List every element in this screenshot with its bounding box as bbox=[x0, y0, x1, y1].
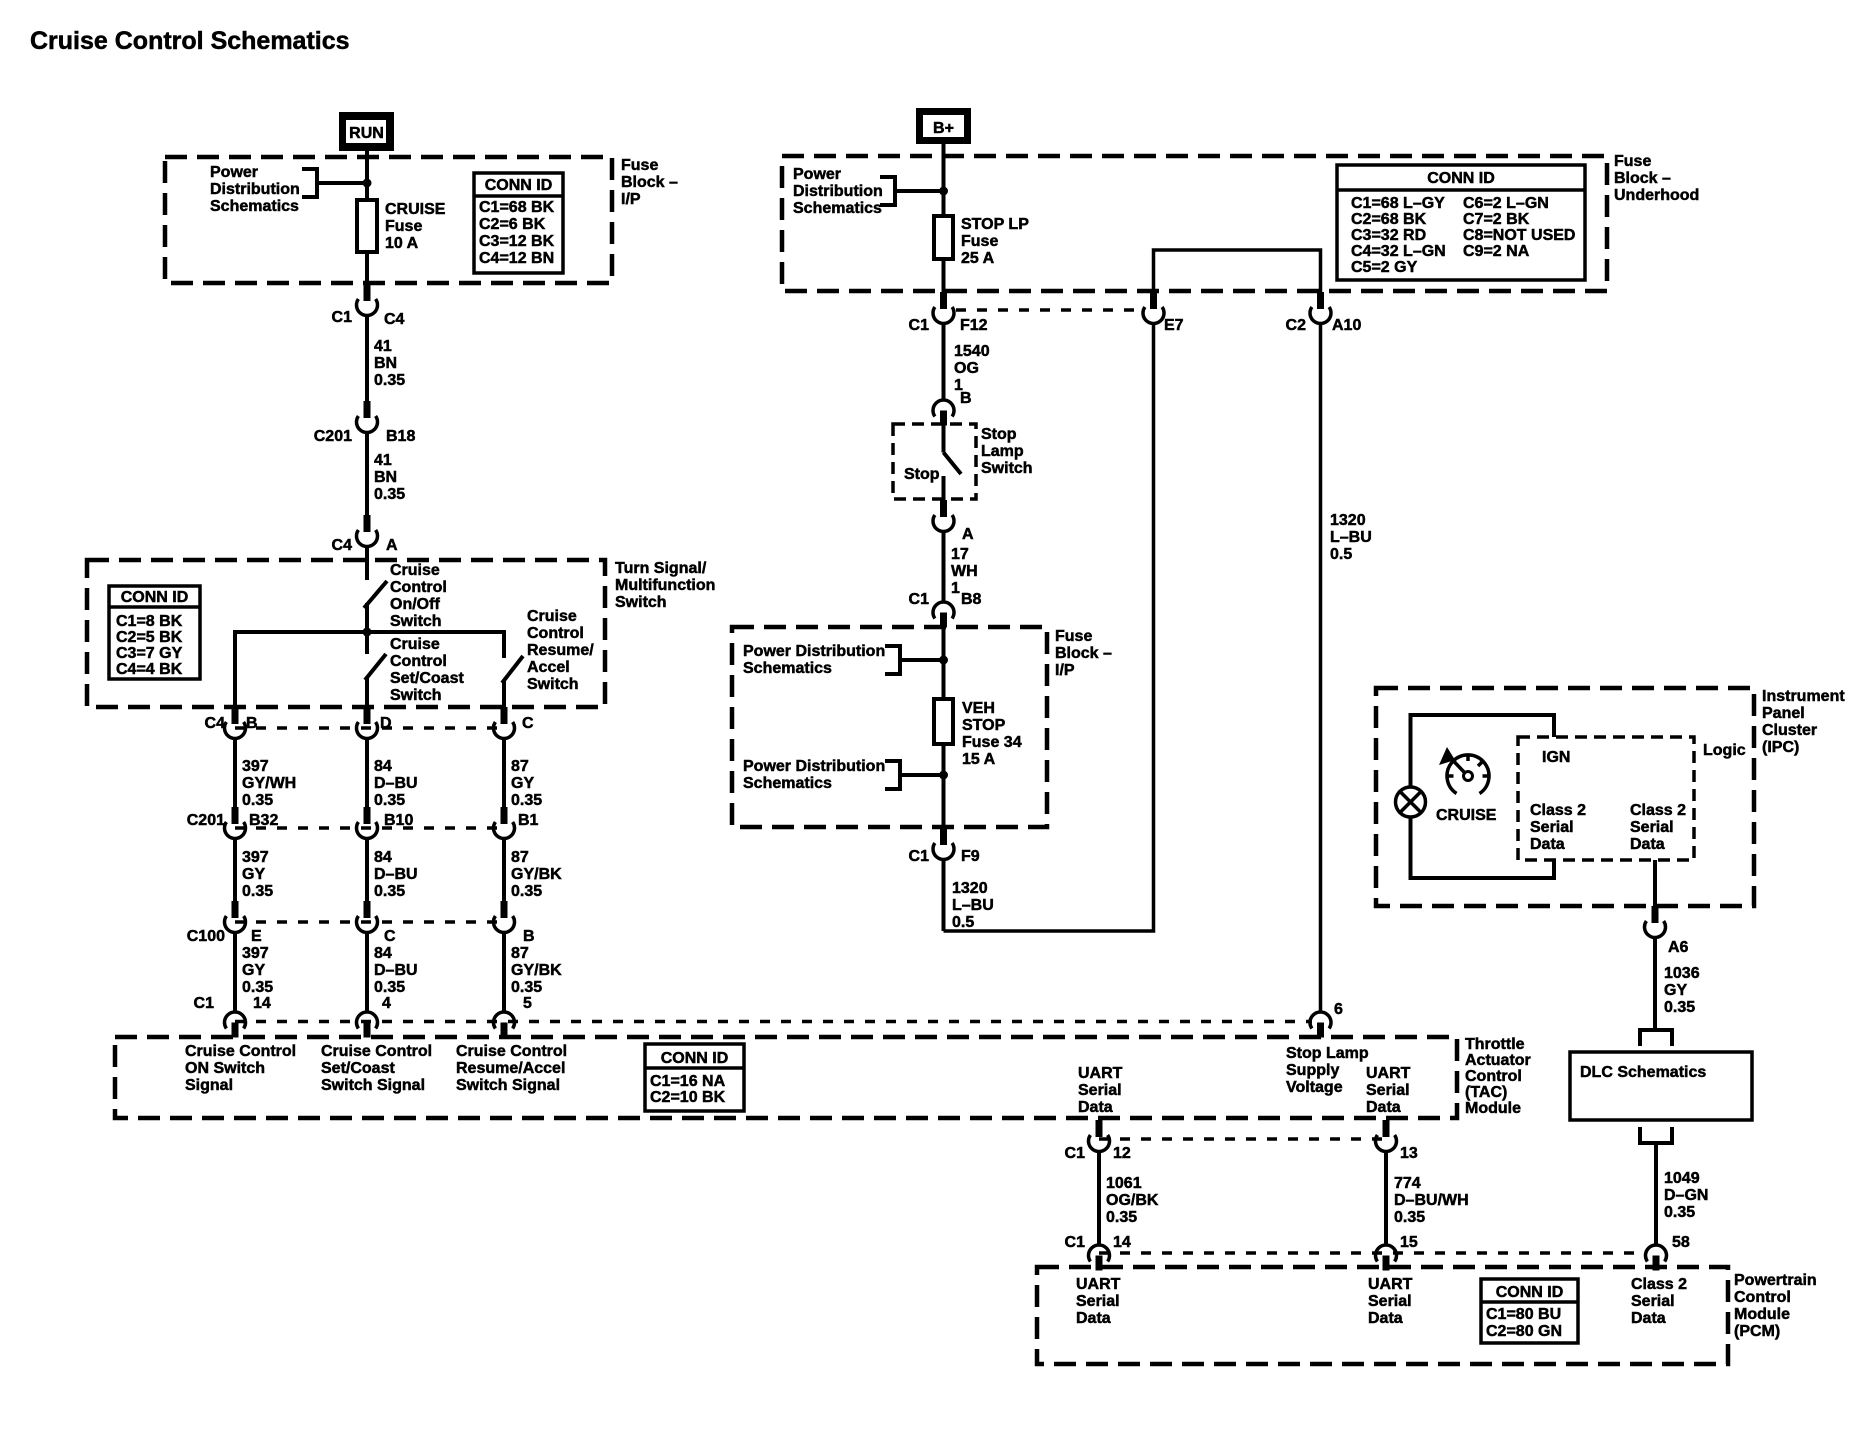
svg-text:(IPC): (IPC) bbox=[1762, 739, 1799, 756]
connector C1 pin F12 bbox=[909, 292, 988, 334]
svg-text:C2=68 BK: C2=68 BK bbox=[1351, 211, 1427, 228]
connector row C201 dotted line bbox=[235, 826, 504, 830]
cruise control on/off switch bbox=[364, 562, 447, 632]
connector pin 58 (PCM) bbox=[1646, 1234, 1690, 1271]
svg-text:Stop: Stop bbox=[981, 426, 1017, 443]
connector C4 pin B bbox=[205, 707, 258, 739]
svg-text:BN: BN bbox=[374, 355, 397, 372]
junction node switch bus bbox=[363, 628, 372, 637]
throttle actuator control TAC module dashed box bbox=[115, 1037, 1457, 1118]
svg-text:4: 4 bbox=[382, 995, 391, 1012]
svg-text:Multifunction: Multifunction bbox=[615, 577, 715, 594]
CONN ID table (fuse block I/P) bbox=[474, 173, 563, 273]
wire RUN to fuse block bbox=[365, 151, 369, 200]
wire class 2 serial data out of IPC bbox=[1653, 860, 1657, 906]
svg-text:C1: C1 bbox=[1065, 1145, 1086, 1162]
svg-text:87: 87 bbox=[511, 945, 529, 962]
svg-text:Serial: Serial bbox=[1366, 1082, 1410, 1099]
svg-text:Class 2: Class 2 bbox=[1631, 1276, 1687, 1293]
svg-text:D–BU: D–BU bbox=[374, 962, 418, 979]
svg-text:Switch: Switch bbox=[390, 613, 442, 630]
svg-text:0.35: 0.35 bbox=[511, 792, 542, 809]
connector C1 pin 14 (PCM) bbox=[1065, 1234, 1131, 1271]
svg-text:C1=68 BK: C1=68 BK bbox=[479, 199, 555, 216]
svg-text:Data: Data bbox=[1076, 1310, 1111, 1327]
svg-text:B: B bbox=[523, 928, 535, 945]
svg-text:C1=68 L–GY: C1=68 L–GY bbox=[1351, 195, 1445, 212]
svg-text:C4=12 BN: C4=12 BN bbox=[479, 250, 554, 267]
wire 397 GY 0.35 bbox=[235, 839, 273, 902]
svg-text:C1=8 BK: C1=8 BK bbox=[116, 613, 183, 630]
svg-text:Module: Module bbox=[1734, 1306, 1790, 1323]
svg-text:C100: C100 bbox=[187, 928, 225, 945]
svg-text:UART: UART bbox=[1366, 1065, 1411, 1082]
svg-text:Schematics: Schematics bbox=[743, 660, 832, 677]
svg-text:0.35: 0.35 bbox=[374, 792, 405, 809]
svg-text:Data: Data bbox=[1631, 1310, 1666, 1327]
svg-text:STOP LP: STOP LP bbox=[961, 216, 1029, 233]
svg-text:0.35: 0.35 bbox=[511, 979, 542, 996]
svg-text:F12: F12 bbox=[960, 317, 988, 334]
svg-text:C2=10 BK: C2=10 BK bbox=[650, 1089, 726, 1106]
svg-text:Fuse 34: Fuse 34 bbox=[962, 734, 1022, 751]
DLC connector bracket (top) bbox=[1640, 1030, 1672, 1046]
svg-text:Switch Signal: Switch Signal bbox=[456, 1077, 560, 1094]
wire reference to VEH STOP node (lower) bbox=[900, 773, 944, 777]
connector pin A6 bbox=[1645, 906, 1689, 956]
instrument panel cluster IPC dashed box bbox=[1376, 688, 1754, 906]
svg-text:5: 5 bbox=[523, 995, 532, 1012]
svg-text:IGN: IGN bbox=[1542, 749, 1570, 766]
svg-text:C1: C1 bbox=[1065, 1234, 1086, 1251]
svg-text:D: D bbox=[380, 715, 392, 732]
connector C1 F12 to E7 dotted line bbox=[956, 308, 1142, 312]
svg-text:0.35: 0.35 bbox=[1664, 1204, 1695, 1221]
svg-text:Cruise: Cruise bbox=[390, 636, 440, 653]
connector C4 pin D bbox=[357, 707, 392, 739]
svg-text:F9: F9 bbox=[961, 848, 980, 865]
svg-text:0.35: 0.35 bbox=[1664, 999, 1695, 1016]
svg-text:CONN ID: CONN ID bbox=[485, 177, 553, 194]
svg-text:C1: C1 bbox=[194, 995, 215, 1012]
svg-text:Block –: Block – bbox=[1055, 645, 1112, 662]
svg-text:Resume/: Resume/ bbox=[527, 642, 594, 659]
svg-text:L–BU: L–BU bbox=[1330, 529, 1372, 546]
svg-text:OG/BK: OG/BK bbox=[1106, 1192, 1159, 1209]
svg-text:Control: Control bbox=[1465, 1068, 1522, 1085]
svg-text:C4: C4 bbox=[205, 715, 226, 732]
svg-text:0.5: 0.5 bbox=[952, 914, 974, 931]
svg-text:0.35: 0.35 bbox=[374, 979, 405, 996]
svg-text:WH: WH bbox=[951, 563, 978, 580]
svg-text:OG: OG bbox=[954, 360, 979, 377]
svg-text:12: 12 bbox=[1113, 1145, 1131, 1162]
svg-text:Stop Lamp: Stop Lamp bbox=[1286, 1045, 1369, 1062]
svg-text:C2=6 BK: C2=6 BK bbox=[479, 216, 546, 233]
wire 774 D-BU/WH 0.35 bbox=[1386, 1152, 1469, 1246]
svg-text:C201: C201 bbox=[314, 428, 352, 445]
connector C201 pin B10 bbox=[357, 807, 414, 839]
connector C100 pin C bbox=[357, 901, 397, 945]
svg-text:Cruise: Cruise bbox=[527, 608, 577, 625]
svg-text:1320: 1320 bbox=[952, 880, 988, 897]
junction node VEH upper bbox=[939, 656, 948, 665]
wire STOP LP fuse to C1 F12 bbox=[942, 259, 946, 292]
svg-text:A: A bbox=[386, 537, 398, 554]
wire fuse block bridge E7 to A10 bbox=[1154, 250, 1321, 292]
wire 1036 GY 0.35 bbox=[1655, 938, 1700, 1031]
svg-text:Stop: Stop bbox=[904, 466, 940, 483]
svg-text:I/P: I/P bbox=[621, 191, 641, 208]
connector C1 pin 4 bbox=[357, 995, 392, 1038]
svg-text:0.35: 0.35 bbox=[242, 979, 273, 996]
svg-text:10 A: 10 A bbox=[385, 235, 419, 252]
wire 41 BN 0.35 (lower) bbox=[367, 433, 405, 516]
svg-text:Actuator: Actuator bbox=[1465, 1052, 1531, 1069]
svg-text:Voltage: Voltage bbox=[1286, 1079, 1343, 1096]
svg-text:Cruise Control Schematics: Cruise Control Schematics bbox=[30, 27, 350, 55]
svg-text:Class 2: Class 2 bbox=[1630, 802, 1686, 819]
wire B8 to VEH STOP fuse bbox=[942, 628, 946, 700]
svg-text:Powertrain: Powertrain bbox=[1734, 1272, 1817, 1289]
wire 1049 D-GN 0.35 bbox=[1656, 1143, 1708, 1245]
svg-text:Distribution: Distribution bbox=[793, 183, 883, 200]
svg-text:17: 17 bbox=[951, 546, 969, 563]
svg-text:Block –: Block – bbox=[621, 174, 678, 191]
svg-text:Underhood: Underhood bbox=[1614, 187, 1699, 204]
wire fuse to connector C1/C4 bbox=[365, 252, 369, 284]
connector pin 6 (TAC stop lamp supply) bbox=[1310, 1001, 1343, 1038]
wire 397 GY/WH 0.35 bbox=[235, 739, 296, 810]
svg-text:A: A bbox=[962, 526, 974, 543]
wire B+ to STOP LP fuse bbox=[942, 144, 946, 216]
svg-text:C3=7 GY: C3=7 GY bbox=[116, 645, 183, 662]
svg-text:41: 41 bbox=[374, 452, 392, 469]
power distribution schematics reference (B+) bbox=[793, 166, 895, 217]
svg-text:Fuse: Fuse bbox=[1055, 628, 1092, 645]
DLC connector bracket (bottom) bbox=[1640, 1127, 1672, 1143]
svg-text:Switch: Switch bbox=[390, 687, 442, 704]
svg-text:Power: Power bbox=[210, 164, 258, 181]
connector C201 pin B1 bbox=[494, 807, 539, 839]
svg-text:Data: Data bbox=[1078, 1099, 1113, 1116]
svg-text:L–BU: L–BU bbox=[952, 897, 994, 914]
svg-text:Power Distribution: Power Distribution bbox=[743, 758, 885, 775]
connector row C1 dotted line to TAC pin 6 bbox=[235, 1020, 1312, 1024]
svg-text:C8=NOT USED: C8=NOT USED bbox=[1463, 227, 1575, 244]
svg-text:B: B bbox=[246, 715, 258, 732]
svg-text:87: 87 bbox=[511, 849, 529, 866]
svg-text:15: 15 bbox=[1400, 1234, 1418, 1251]
svg-text:1036: 1036 bbox=[1664, 965, 1700, 982]
DLC Schematics box bbox=[1570, 1052, 1752, 1120]
svg-text:C2=80 GN: C2=80 GN bbox=[1486, 1323, 1562, 1340]
svg-text:397: 397 bbox=[242, 758, 269, 775]
svg-text:D–BU/WH: D–BU/WH bbox=[1394, 1192, 1469, 1209]
svg-text:Cluster: Cluster bbox=[1762, 722, 1817, 739]
connector C201/B18 bbox=[314, 401, 416, 445]
svg-text:Control: Control bbox=[390, 579, 447, 596]
wire 87 GY 0.35 bbox=[504, 739, 542, 810]
svg-text:0.35: 0.35 bbox=[1394, 1209, 1425, 1226]
svg-text:DLC Schematics: DLC Schematics bbox=[1580, 1064, 1706, 1081]
svg-text:Switch: Switch bbox=[981, 460, 1033, 477]
svg-text:Instrument: Instrument bbox=[1762, 688, 1845, 705]
fuse block I/P dashed box (VEH STOP) bbox=[732, 627, 1047, 827]
svg-text:Class 2: Class 2 bbox=[1530, 802, 1586, 819]
cruise control set/coast switch bbox=[365, 632, 464, 707]
svg-text:0.35: 0.35 bbox=[511, 883, 542, 900]
svg-text:(PCM): (PCM) bbox=[1734, 1323, 1780, 1340]
svg-text:D–GN: D–GN bbox=[1664, 1187, 1708, 1204]
svg-text:Fuse: Fuse bbox=[961, 233, 998, 250]
svg-text:Data: Data bbox=[1630, 836, 1665, 853]
svg-text:1049: 1049 bbox=[1664, 1170, 1700, 1187]
connector pin 15 (PCM) bbox=[1376, 1234, 1418, 1271]
svg-text:C2: C2 bbox=[1286, 317, 1307, 334]
fuse CRUISE 10 A bbox=[357, 200, 377, 252]
svg-text:C4=4 BK: C4=4 BK bbox=[116, 661, 183, 678]
svg-text:774: 774 bbox=[1394, 1175, 1421, 1192]
svg-text:STOP: STOP bbox=[962, 717, 1006, 734]
svg-text:Module: Module bbox=[1465, 1100, 1521, 1117]
svg-text:Schematics: Schematics bbox=[743, 775, 832, 792]
wire 84 D-BU 0.35 (lower) bbox=[367, 933, 418, 1013]
svg-text:GY/BK: GY/BK bbox=[511, 866, 562, 883]
svg-text:CONN ID: CONN ID bbox=[121, 589, 189, 606]
svg-text:Serial: Serial bbox=[1630, 819, 1674, 836]
fuse STOP LP 25 A bbox=[934, 216, 953, 259]
wire 87 GY/BK 0.35 (lower) bbox=[504, 933, 562, 1013]
connector C201 pin B32 bbox=[187, 807, 279, 839]
svg-text:Cruise Control: Cruise Control bbox=[185, 1043, 296, 1060]
svg-text:C7=2 BK: C7=2 BK bbox=[1463, 211, 1530, 228]
connector C1/C4 bbox=[332, 284, 405, 328]
CONN ID table (multifunction switch) bbox=[109, 586, 200, 679]
svg-text:Lamp: Lamp bbox=[981, 443, 1024, 460]
svg-text:GY: GY bbox=[242, 866, 265, 883]
connector C1 14/15/58 dotted line bbox=[1099, 1251, 1645, 1255]
svg-text:Switch Signal: Switch Signal bbox=[321, 1077, 425, 1094]
svg-text:14: 14 bbox=[253, 995, 271, 1012]
svg-text:C9=2 NA: C9=2 NA bbox=[1463, 243, 1530, 260]
svg-text:Cruise Control: Cruise Control bbox=[456, 1043, 567, 1060]
svg-text:C4=32 L–GN: C4=32 L–GN bbox=[1351, 243, 1446, 260]
fuse VEH STOP 15 A bbox=[934, 699, 953, 744]
wire F9 run to E7 bbox=[944, 324, 1154, 932]
wire into on/off switch bbox=[365, 547, 369, 581]
svg-text:GY/WH: GY/WH bbox=[242, 775, 296, 792]
wire 84 D-BU 0.35 (mid) bbox=[367, 839, 418, 902]
svg-text:Panel: Panel bbox=[1762, 705, 1805, 722]
svg-text:Supply: Supply bbox=[1286, 1062, 1339, 1079]
svg-text:Data: Data bbox=[1530, 836, 1565, 853]
svg-text:C1=16 NA: C1=16 NA bbox=[650, 1073, 726, 1090]
svg-text:CRUISE: CRUISE bbox=[385, 201, 446, 218]
svg-text:CONN ID: CONN ID bbox=[1496, 1284, 1564, 1301]
wire 87 GY/BK 0.35 bbox=[504, 839, 562, 902]
wire switch bus bbox=[235, 632, 504, 707]
wire 41 BN 0.35 bbox=[367, 316, 405, 402]
connector row C100 dotted line bbox=[235, 920, 504, 924]
svg-text:6: 6 bbox=[1334, 1001, 1343, 1018]
svg-text:0.5: 0.5 bbox=[1330, 546, 1352, 563]
svg-text:Resume/Accel: Resume/Accel bbox=[456, 1060, 565, 1077]
svg-text:Schematics: Schematics bbox=[793, 200, 882, 217]
svg-text:Data: Data bbox=[1366, 1099, 1401, 1116]
svg-text:Control: Control bbox=[390, 653, 447, 670]
connector C100 pin E bbox=[187, 901, 262, 945]
svg-text:Turn Signal/: Turn Signal/ bbox=[615, 560, 707, 577]
svg-text:Power: Power bbox=[793, 166, 841, 183]
svg-text:C1: C1 bbox=[909, 848, 930, 865]
svg-text:D–BU: D–BU bbox=[374, 775, 418, 792]
power distribution schematics reference (lower VEH) bbox=[743, 758, 900, 792]
B+ battery voltage terminal bbox=[916, 108, 971, 144]
svg-text:14: 14 bbox=[1113, 1234, 1131, 1251]
power distribution schematics reference (left) bbox=[210, 164, 317, 215]
svg-text:Serial: Serial bbox=[1076, 1293, 1120, 1310]
svg-text:Fuse: Fuse bbox=[621, 157, 658, 174]
cruise gauge icon bbox=[1439, 747, 1489, 794]
svg-text:0.35: 0.35 bbox=[242, 792, 273, 809]
wire 84 D-BU 0.35 bbox=[367, 739, 418, 810]
junction node bbox=[363, 179, 372, 188]
svg-text:Fuse: Fuse bbox=[385, 218, 422, 235]
fuse block underhood dashed box bbox=[782, 156, 1607, 291]
svg-text:B+: B+ bbox=[933, 120, 954, 137]
svg-text:C: C bbox=[384, 928, 396, 945]
svg-text:Accel: Accel bbox=[527, 659, 570, 676]
svg-text:UART: UART bbox=[1076, 1276, 1121, 1293]
junction node B+ bbox=[939, 187, 948, 196]
svg-text:Logic: Logic bbox=[1703, 742, 1746, 759]
svg-text:Distribution: Distribution bbox=[210, 181, 300, 198]
svg-text:0.35: 0.35 bbox=[374, 372, 405, 389]
svg-text:C5=2 GY: C5=2 GY bbox=[1351, 259, 1418, 276]
svg-text:B18: B18 bbox=[386, 428, 415, 445]
connector C2 pin A10 bbox=[1286, 292, 1362, 334]
svg-text:BN: BN bbox=[374, 469, 397, 486]
svg-text:41: 41 bbox=[374, 338, 392, 355]
svg-text:58: 58 bbox=[1672, 1234, 1690, 1251]
logic dashed box bbox=[1518, 737, 1694, 860]
svg-text:GY: GY bbox=[511, 775, 534, 792]
svg-text:E: E bbox=[251, 928, 262, 945]
svg-text:C4: C4 bbox=[384, 311, 405, 328]
svg-text:C201: C201 bbox=[187, 812, 225, 829]
svg-text:Switch: Switch bbox=[615, 594, 667, 611]
svg-text:Fuse: Fuse bbox=[1614, 153, 1651, 170]
svg-text:13: 13 bbox=[1400, 1145, 1418, 1162]
svg-text:0.35: 0.35 bbox=[374, 486, 405, 503]
connector C4/A bbox=[332, 515, 398, 554]
wire 397 GY 0.35 (lower) bbox=[235, 933, 273, 1013]
svg-text:Control: Control bbox=[1734, 1289, 1791, 1306]
svg-text:1540: 1540 bbox=[954, 343, 990, 360]
turn signal / multifunction switch dashed box bbox=[87, 560, 605, 707]
wire reference to STOP LP fuse node bbox=[895, 189, 944, 193]
svg-text:RUN: RUN bbox=[349, 125, 384, 142]
svg-text:15 A: 15 A bbox=[962, 751, 996, 768]
svg-text:Block –: Block – bbox=[1614, 170, 1671, 187]
svg-text:GY/BK: GY/BK bbox=[511, 962, 562, 979]
wire 1540 OG 1 bbox=[944, 324, 990, 401]
svg-text:1320: 1320 bbox=[1330, 512, 1366, 529]
connector row C4 B/D/C dotted line bbox=[235, 726, 504, 730]
svg-text:A10: A10 bbox=[1332, 317, 1361, 334]
svg-text:1: 1 bbox=[951, 580, 960, 597]
svg-text:UART: UART bbox=[1078, 1065, 1123, 1082]
wire reference to CRUISE fuse node bbox=[317, 181, 367, 185]
wire IPC lamp loop bottom bbox=[1411, 817, 1555, 878]
svg-text:On/Off: On/Off bbox=[390, 596, 440, 613]
svg-text:Cruise: Cruise bbox=[390, 562, 440, 579]
connector pin E7 bbox=[1143, 292, 1184, 334]
connector C1 pin 5 bbox=[494, 995, 533, 1038]
svg-text:C: C bbox=[522, 715, 534, 732]
svg-text:C3=12 BK: C3=12 BK bbox=[479, 233, 555, 250]
svg-text:Control: Control bbox=[527, 625, 584, 642]
cruise control resume/accel switch bbox=[502, 608, 594, 707]
svg-text:Serial: Serial bbox=[1631, 1293, 1675, 1310]
connector C1 pin F9 bbox=[909, 828, 980, 865]
svg-text:B10: B10 bbox=[384, 812, 413, 829]
svg-text:Schematics: Schematics bbox=[210, 198, 299, 215]
svg-text:87: 87 bbox=[511, 758, 529, 775]
junction node VEH lower bbox=[939, 771, 948, 780]
svg-text:84: 84 bbox=[374, 758, 392, 775]
connector pin A (stop lamp switch out) bbox=[933, 500, 974, 543]
wire 17 WH 1 bbox=[944, 532, 978, 603]
power distribution schematics reference (upper VEH) bbox=[743, 643, 900, 677]
svg-text:C3=32 RD: C3=32 RD bbox=[1351, 227, 1426, 244]
svg-text:B32: B32 bbox=[249, 812, 278, 829]
svg-text:C6=2 L–GN: C6=2 L–GN bbox=[1463, 195, 1549, 212]
svg-text:Switch: Switch bbox=[527, 676, 579, 693]
connector pin B (stop lamp switch) bbox=[933, 390, 972, 426]
svg-text:CONN ID: CONN ID bbox=[661, 1050, 729, 1067]
connector C4 pin C bbox=[494, 707, 535, 739]
svg-text:Data: Data bbox=[1368, 1310, 1403, 1327]
svg-text:CONN ID: CONN ID bbox=[1427, 170, 1495, 187]
svg-text:Signal: Signal bbox=[185, 1077, 233, 1094]
svg-text:0.35: 0.35 bbox=[1106, 1209, 1137, 1226]
svg-text:C1: C1 bbox=[909, 317, 930, 334]
svg-text:Cruise Control: Cruise Control bbox=[321, 1043, 432, 1060]
svg-text:25 A: 25 A bbox=[961, 250, 995, 267]
wire reference to VEH STOP node (upper) bbox=[900, 658, 944, 662]
svg-text:ON Switch: ON Switch bbox=[185, 1060, 265, 1077]
svg-text:Power Distribution: Power Distribution bbox=[743, 643, 885, 660]
wire 1061 OG/BK 0.35 bbox=[1099, 1152, 1159, 1246]
svg-text:B8: B8 bbox=[961, 591, 982, 608]
svg-text:1061: 1061 bbox=[1106, 1175, 1142, 1192]
svg-text:397: 397 bbox=[242, 945, 269, 962]
svg-text:C1: C1 bbox=[909, 591, 930, 608]
svg-text:84: 84 bbox=[374, 945, 392, 962]
svg-text:Serial: Serial bbox=[1530, 819, 1574, 836]
CONN ID table (PCM) bbox=[1481, 1279, 1578, 1343]
svg-text:GY: GY bbox=[242, 962, 265, 979]
svg-text:VEH: VEH bbox=[962, 700, 995, 717]
fuse block I/P dashed box bbox=[165, 157, 612, 283]
CONN ID table (fuse block underhood) bbox=[1337, 165, 1585, 280]
svg-text:0.35: 0.35 bbox=[374, 883, 405, 900]
connector C1 pin 12 bbox=[1065, 1120, 1131, 1162]
wire 1320 L-BU 0.5 (A10 to TAC pin 6) bbox=[1321, 324, 1372, 1013]
svg-text:(TAC): (TAC) bbox=[1465, 1084, 1507, 1101]
